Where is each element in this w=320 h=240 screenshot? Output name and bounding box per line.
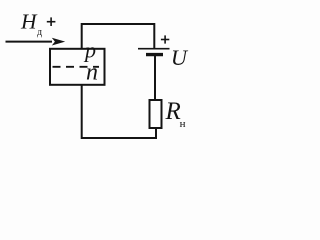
plus polarity mark (battery)	[161, 35, 169, 43]
svg-text:U: U	[171, 45, 189, 70]
resistor label Rн	[165, 98, 186, 130]
plus polarity mark (left, near Hд)	[47, 17, 56, 26]
load resistor Rн (box)	[150, 100, 162, 128]
battery U: long positive plate	[138, 48, 170, 50]
battery U: short negative plate	[146, 53, 163, 56]
svg-text:д: д	[37, 27, 42, 38]
node label Hд (Hall field/flux label)	[20, 10, 42, 39]
svg-text:H: H	[20, 10, 38, 34]
p-n junction dashed line	[53, 66, 100, 68]
wire from battery to resistor	[154, 56, 156, 101]
wire from resistor bottom to box bottom (return wire)	[82, 85, 156, 138]
p-n semiconductor element (box)	[50, 49, 105, 85]
svg-text:R: R	[165, 98, 181, 125]
svg-text:n: n	[86, 60, 98, 86]
svg-text:н: н	[180, 118, 186, 130]
arrow (direction of field into p-n element)	[6, 38, 66, 46]
wire from box top to battery	[82, 24, 155, 49]
